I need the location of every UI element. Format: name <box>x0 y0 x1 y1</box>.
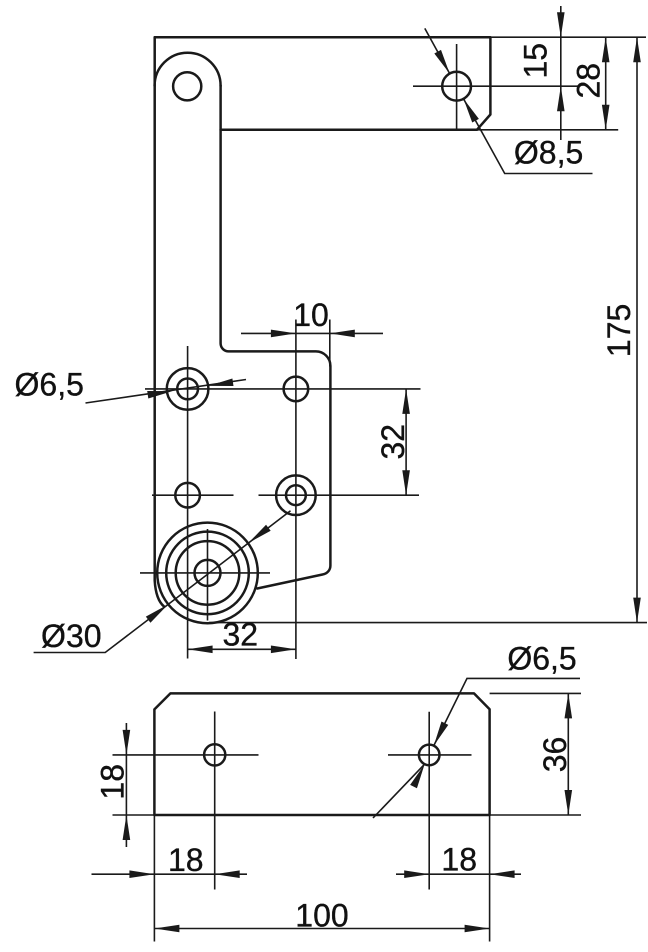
boss circle 2 <box>166 532 249 615</box>
dimension 100 arrow left <box>154 925 179 933</box>
hole lower-right inner <box>286 485 306 505</box>
dimension 18 left line <box>125 723 127 847</box>
centerline bottom-left hole vertical <box>214 712 216 890</box>
dimension 32v arrow top <box>402 389 410 414</box>
extension: top edge to right <box>490 36 646 38</box>
dimension 32b arrow right <box>271 646 296 654</box>
part outline: top plate <box>155 37 491 130</box>
svg-text:18: 18 <box>441 842 477 878</box>
dimension 32 bottom line <box>188 648 296 650</box>
dimension 36 arrow bottom <box>565 790 573 815</box>
dimension 36 line <box>567 693 569 815</box>
centerline boss horizontal <box>140 572 270 574</box>
svg-text:Ø6,5: Ø6,5 <box>507 641 576 677</box>
svg-text:15: 15 <box>518 43 554 79</box>
centerline column 2 <box>295 320 297 660</box>
dimension 175 arrow bottom <box>633 598 641 623</box>
dimension 100 line <box>154 928 489 930</box>
svg-text:10: 10 <box>293 297 329 333</box>
extension: plate bottom edge right <box>490 814 581 816</box>
boss center hole <box>195 560 221 586</box>
hole lower-left <box>175 483 200 508</box>
boss circle 3 <box>176 541 240 605</box>
leader O30 arrow lower-left <box>146 601 170 622</box>
dimension 18 left arrow bottom <box>123 815 131 840</box>
dimension 15 text <box>518 43 554 79</box>
dimension 15 arrow bottom <box>557 86 565 111</box>
svg-text:36: 36 <box>537 737 573 773</box>
dimension 36 text <box>537 737 573 773</box>
dimension 18 bottom-right line left part <box>396 873 521 875</box>
hole lower-right outer <box>276 475 316 515</box>
boss outer circle O30 <box>157 523 258 624</box>
part outline: left edge of vertical bar <box>155 37 164 606</box>
bottom plate hole left <box>204 744 225 765</box>
extension: plate left edge down <box>153 815 155 942</box>
dimension 10 left line <box>241 332 383 334</box>
dimension 10 arrow right <box>330 330 355 338</box>
part outline: bar right edge, step and lower right edge <box>221 86 331 589</box>
extension: plate bottom edge left <box>113 814 155 816</box>
dimension 175 arrow top <box>633 37 641 62</box>
hole top-right <box>284 377 309 402</box>
dimension 15 line <box>560 6 562 140</box>
leader O30 shelf and diagonal <box>34 511 291 653</box>
svg-text:32: 32 <box>375 424 411 460</box>
svg-text:32: 32 <box>223 617 259 653</box>
dimension 18 bottom-left arrow left <box>129 870 154 878</box>
centerline column 1 <box>187 346 189 659</box>
dimension 28 arrow top <box>602 37 610 62</box>
dimension 28 arrow bottom <box>602 105 610 130</box>
bottom plate outline <box>154 693 489 815</box>
dimension 18 left arrow top <box>123 730 131 755</box>
dimension 36 arrow top <box>565 693 573 718</box>
hole in tab <box>173 72 201 100</box>
part outline: rounded tab arc <box>155 53 221 86</box>
dimension 175 text <box>601 304 637 357</box>
extension: plate right edge down <box>489 815 491 942</box>
svg-text:18: 18 <box>168 842 204 878</box>
centerline bottom-left hole horizontal <box>113 754 259 756</box>
leader O6,5 arrow right <box>208 379 234 390</box>
dimension 18 bottom-right arrow right <box>490 870 515 878</box>
extension: bottom tangent of boss to right <box>209 622 647 624</box>
centerline bottom-right hole horizontal <box>388 754 472 756</box>
dimension 175 line <box>636 37 638 622</box>
dimension 18 bottom-left line left part <box>92 873 248 875</box>
hole top-left O6,5 outer <box>167 368 209 410</box>
svg-text:Ø8,5: Ø8,5 <box>514 135 583 171</box>
dimension 28 line <box>605 37 607 130</box>
hole O8,5 in top plate <box>442 72 471 101</box>
leader O8,5 arrow lower <box>460 97 479 123</box>
extension: right edge for 10 dim <box>329 320 331 367</box>
centerline row 2 <box>152 494 419 496</box>
leader O6,5 bottom shelf and diagonal <box>434 678 580 745</box>
leader O6,5 bottom arrow lower <box>410 763 428 789</box>
dimension 32b arrow left <box>188 646 213 654</box>
dimension 18 left text <box>94 764 130 800</box>
leader O6,5 bottom lower segment <box>373 764 425 818</box>
extension: plate top edge right <box>490 692 581 694</box>
dimension 18 bottom-left arrow right <box>215 870 240 878</box>
dimension 15 arrow top <box>557 12 565 37</box>
dimension 32 vertical line <box>405 389 407 495</box>
bottom plate hole right <box>419 745 440 766</box>
leader O6,5 arrow left <box>147 387 173 398</box>
centerline boss vertical <box>207 529 209 621</box>
centerline horizontal of O8,5 hole <box>413 85 580 87</box>
svg-text:175: 175 <box>601 304 637 357</box>
svg-text:18: 18 <box>94 764 130 800</box>
leader O6,5 bottom arrow upper <box>430 722 448 748</box>
svg-text:Ø30: Ø30 <box>41 618 101 654</box>
leader O8,5 arrow upper <box>434 50 453 76</box>
dimension 32v arrow bottom <box>402 470 410 495</box>
centerline bottom-right hole vertical <box>428 712 430 890</box>
leader O6,5 top line <box>86 380 247 404</box>
hole top-left O6,5 inner <box>177 379 198 400</box>
dimension 10 arrow left <box>271 330 296 338</box>
centerline vertical of O8,5 hole <box>456 44 458 130</box>
leader O30 arrow upper-right <box>246 525 270 546</box>
svg-text:28: 28 <box>571 63 607 99</box>
dimension 100 arrow right <box>465 925 490 933</box>
extension: plate bottom edge to right <box>477 129 618 131</box>
centerline row 1 <box>145 388 421 390</box>
svg-text:Ø6,5: Ø6,5 <box>15 367 84 403</box>
dimension 18 bottom-right arrow left <box>404 870 429 878</box>
dimension 32v text <box>375 424 411 460</box>
dimension 28 text <box>571 63 607 99</box>
leader O8,5 upper segment <box>425 28 450 73</box>
leader O8,5 lower segment <box>464 99 593 174</box>
svg-text:100: 100 <box>295 898 348 934</box>
